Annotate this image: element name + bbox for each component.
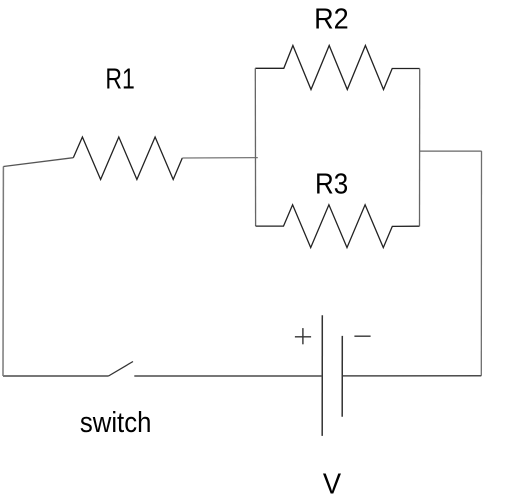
wire right vertical of parallel block <box>419 69 421 227</box>
wire bottom left <box>3 375 109 377</box>
plus sign <box>295 328 311 344</box>
svg-text:R3: R3 <box>315 169 348 201</box>
svg-text:R1: R1 <box>105 64 134 96</box>
wire left slant to R1 <box>3 158 73 167</box>
wire right rail vertical <box>480 151 482 376</box>
svg-text:switch: switch <box>80 407 151 439</box>
wire middle node: R1 right lead to parallel block <box>182 157 257 159</box>
wire bottom right rail <box>342 375 481 377</box>
resistor R2 <box>255 46 419 90</box>
minus sign <box>354 335 370 337</box>
resistor R3 <box>256 205 420 248</box>
svg-text:V: V <box>323 469 342 501</box>
battery V short plate (-) <box>341 336 343 417</box>
wire output to right rail <box>420 150 482 152</box>
battery V long plate (+) <box>321 315 323 436</box>
resistor R1 <box>73 137 182 180</box>
wire left rail vertical <box>2 167 4 377</box>
svg-text:R2: R2 <box>314 4 349 36</box>
switch blade <box>109 362 134 377</box>
wire left vertical of parallel block <box>254 68 256 226</box>
wire bottom middle: battery to switch <box>134 375 322 377</box>
